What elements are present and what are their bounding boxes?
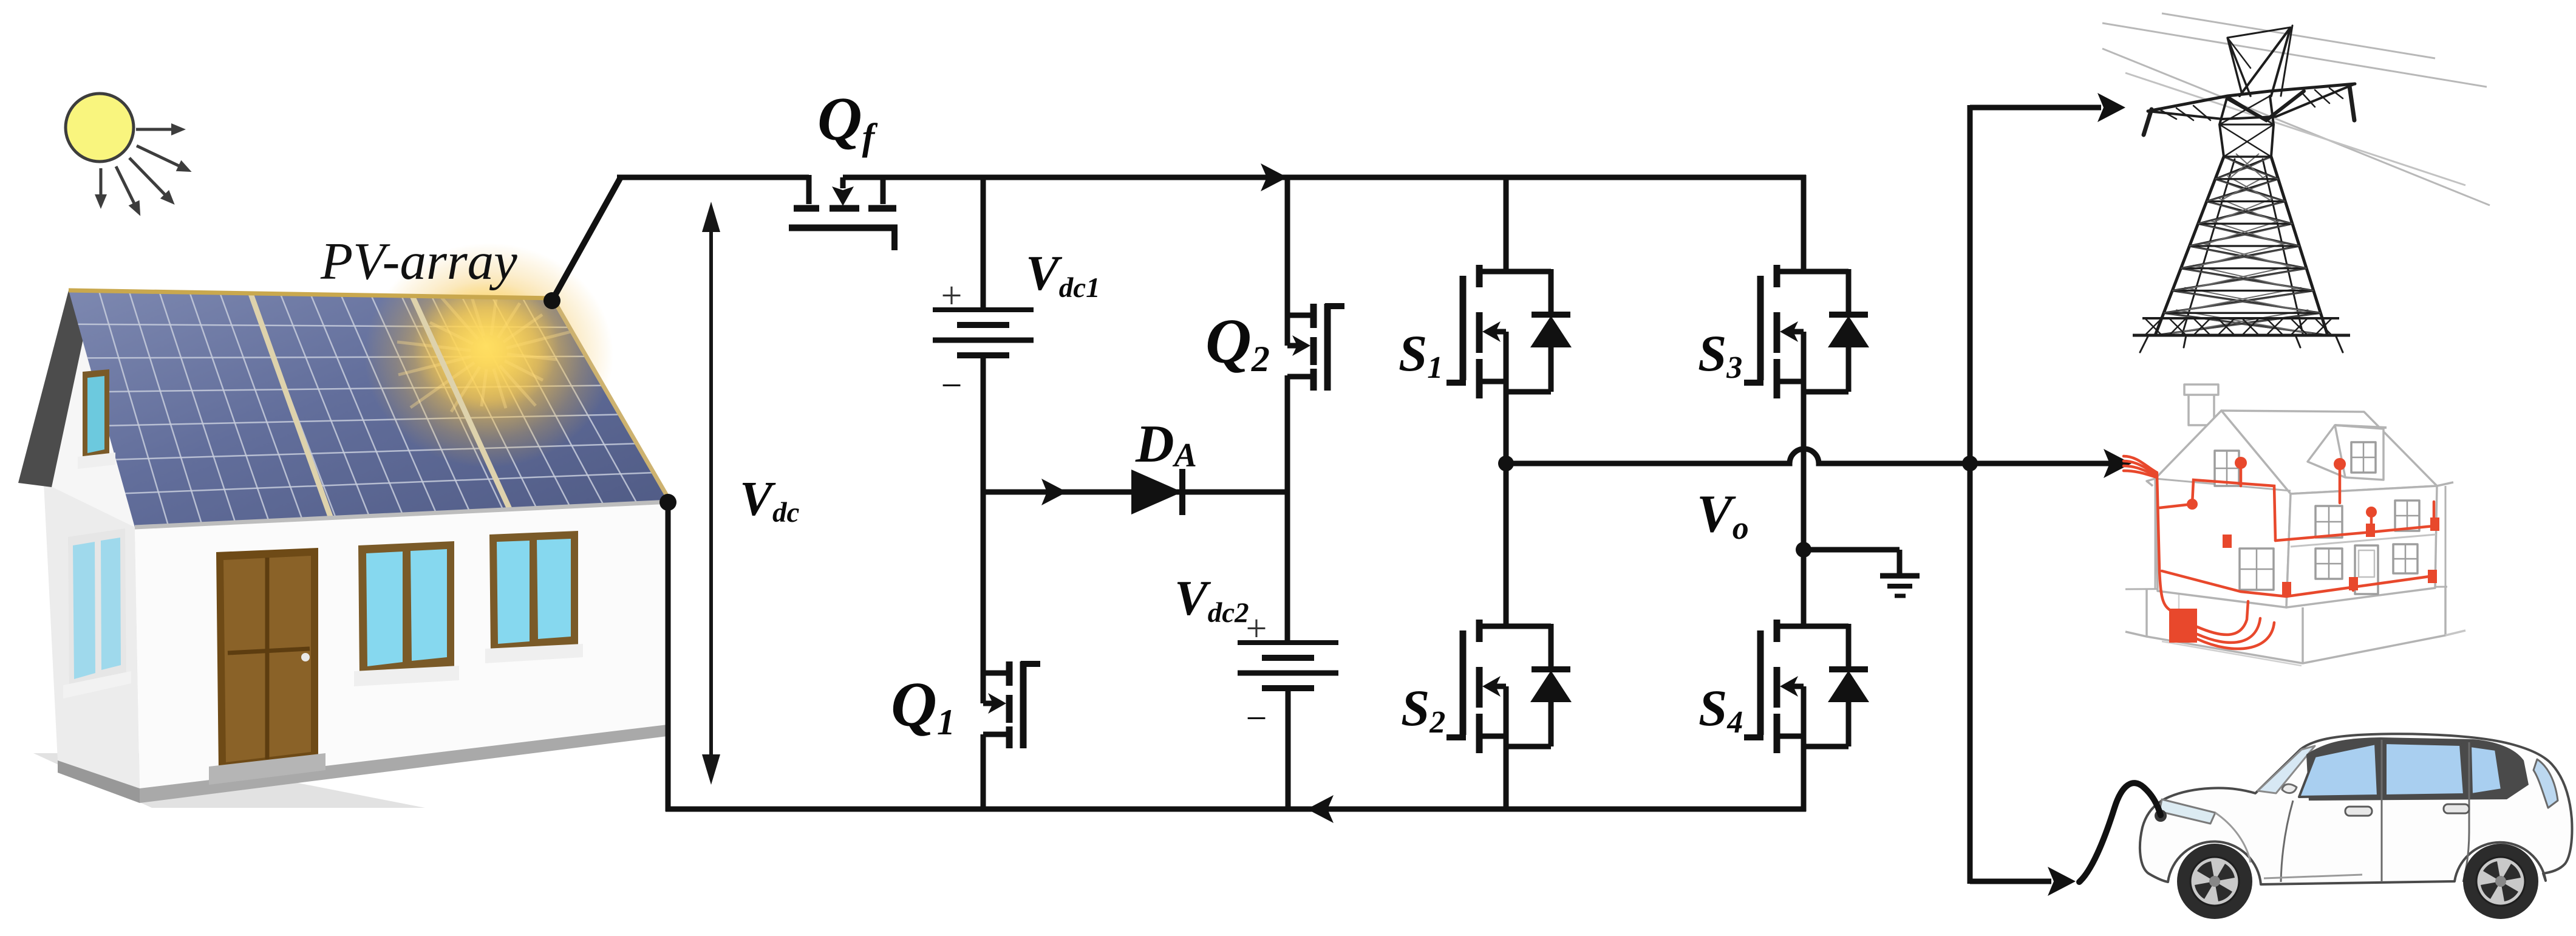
wire node B to S4 xyxy=(1801,550,1807,629)
arrow to grid tower xyxy=(2097,93,2125,122)
transistor Q1 xyxy=(983,661,1040,748)
ground xyxy=(1880,576,1920,596)
transistor S4 xyxy=(1744,620,1869,753)
transistor S3 xyxy=(1744,265,1869,398)
wire bottom rail xyxy=(666,807,1806,812)
wire S2 to bottom rail xyxy=(1504,686,1509,811)
battery Vdc1 xyxy=(933,275,1034,406)
battery Vdc2 xyxy=(1238,608,1338,739)
wire bus top to grid xyxy=(1970,105,2101,111)
transistor Qf xyxy=(789,175,898,250)
node B (S3-S4 midpoint / ground tap) xyxy=(1796,542,1811,558)
wire S1 to mid node xyxy=(1504,332,1509,466)
node roof top xyxy=(543,292,561,309)
transistor S1 xyxy=(1446,265,1572,398)
measure Vdc arrow xyxy=(702,202,720,785)
wire bus bottom to EV xyxy=(1970,879,2051,884)
wire DA branch xyxy=(983,490,1287,495)
arrow to EV xyxy=(2048,867,2076,896)
transistor S2 xyxy=(1446,620,1572,753)
wire Q1 to bottom rail xyxy=(981,734,986,811)
wire ground branch xyxy=(1804,547,1900,553)
power grid conductor lines xyxy=(2102,13,2490,205)
node bus mid xyxy=(1962,456,1978,471)
wire Vdc1 leg mid xyxy=(981,355,986,675)
wire from PV roof to top rail xyxy=(552,177,621,301)
wire Q2 leg top xyxy=(1285,177,1290,318)
PV house xyxy=(18,243,670,808)
wire Q2 to Vdc2 xyxy=(1285,375,1290,644)
wire Vdc2 to bottom rail xyxy=(1286,688,1291,811)
wire S1 leg top xyxy=(1504,177,1509,274)
svg-text:+: + xyxy=(1246,608,1267,649)
arrow on DA branch xyxy=(1041,479,1067,505)
svg-text:+: + xyxy=(941,275,963,316)
wire right bus vertical xyxy=(1968,105,1973,884)
transistor Q2 xyxy=(1287,304,1344,391)
sun xyxy=(66,94,192,216)
svg-text:PV-array: PV-array xyxy=(320,231,517,290)
transmission tower xyxy=(2133,26,2355,352)
arrow bottom rail (left) xyxy=(1307,795,1334,823)
EV car xyxy=(2079,734,2572,919)
wire phase output with crossover hump xyxy=(1506,449,2122,463)
load house xyxy=(2125,384,2465,666)
node A (S1-S2 midpoint) xyxy=(1498,456,1514,471)
load house wiring xyxy=(2124,456,2439,649)
svg-text:−: − xyxy=(941,365,963,406)
wire S3 leg top xyxy=(1801,175,1807,274)
svg-text:−: − xyxy=(1246,698,1267,739)
node roof eave xyxy=(659,494,676,511)
arrow to load house xyxy=(2104,449,2131,478)
wire S3 down through crossover xyxy=(1801,332,1807,552)
wire top rail right of Qf xyxy=(843,175,1806,180)
diode DA xyxy=(1131,469,1182,515)
wire Vdc1 leg top xyxy=(981,177,986,311)
arrow top rail (right) xyxy=(1261,163,1287,191)
wire house down xyxy=(666,502,671,811)
wire S4 to bottom rail xyxy=(1801,686,1807,811)
wire mid node to S2 xyxy=(1504,463,1509,629)
